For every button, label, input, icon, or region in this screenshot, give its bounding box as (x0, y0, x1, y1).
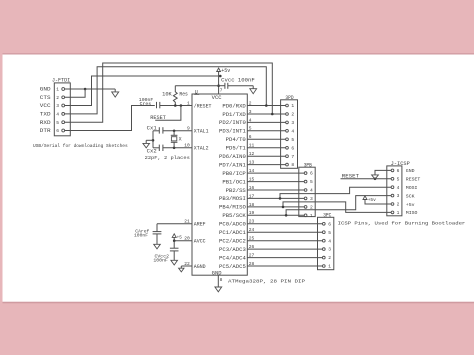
wire to crystal ground (146, 139, 153, 141)
wire PD3 to 3PD pin 4 (247, 130, 285, 132)
svg-text:3: 3 (328, 247, 331, 253)
wire PB2 to 3PB pin 4 (247, 189, 304, 191)
svg-text:5: 5 (328, 230, 331, 236)
connector 3PD box (281, 100, 298, 169)
svg-text:9: 9 (187, 126, 190, 132)
junction crystal ground tap (152, 139, 155, 142)
svg-text:SCK: SCK (406, 193, 415, 199)
+5v symbol (main) (217, 68, 221, 71)
svg-text:1: 1 (397, 210, 400, 216)
svg-text:PC5/ADC5: PC5/ADC5 (219, 264, 246, 270)
svg-text:PD6/AIN0: PD6/AIN0 (219, 154, 246, 160)
wire Cres to /RESET pin 1 (160, 105, 192, 107)
svg-text:6: 6 (310, 171, 313, 177)
capacitor CAref plates (153, 231, 162, 233)
3PB pin 6 circle (304, 172, 307, 175)
svg-text:100nF: 100nF (134, 233, 148, 239)
junction 10K on /RESET (174, 104, 177, 107)
svg-text:8: 8 (220, 277, 223, 283)
ground (CAref) (154, 244, 161, 249)
3PC pin 6 circle (322, 222, 325, 225)
capacitor Cx1 plates (158, 127, 160, 133)
svg-text:MOSI: MOSI (406, 185, 418, 191)
3PC pin 5 circle (322, 231, 325, 234)
svg-text:GND: GND (406, 168, 415, 174)
wire PC2 to 3PC pin 4 (247, 240, 322, 242)
wire AREF down to CAref (156, 224, 158, 232)
svg-text:XTAL2: XTAL2 (194, 146, 209, 152)
capacitor Cvcc plates (224, 83, 226, 89)
3PC pin 2 circle (322, 256, 325, 259)
3PD pin 1 circle (286, 104, 289, 107)
svg-text:1: 1 (310, 213, 313, 219)
wire PC0 to 3PC pin 6 (247, 223, 322, 225)
svg-text:2: 2 (291, 112, 294, 118)
svg-text:PC1/ADC1: PC1/ADC1 (219, 230, 246, 236)
junction VCC rail (219, 75, 222, 78)
svg-text:8: 8 (291, 162, 294, 168)
svg-text:TXD: TXD (40, 112, 51, 118)
wire Cx1-Cx2 link (152, 131, 154, 148)
wire Cx1 left (153, 130, 159, 132)
svg-text:1: 1 (328, 264, 331, 270)
svg-text:PB1/OC1: PB1/OC1 (222, 179, 245, 185)
3PB pin 2 circle (304, 206, 307, 209)
wire stem to ground (114, 89, 116, 92)
ground (crystal) (143, 143, 150, 148)
svg-text:3: 3 (397, 193, 400, 199)
wire AVCC (174, 240, 192, 242)
J-ICSP pin 6 circle (391, 169, 394, 172)
wire PB4 to 3PB pin 2 (247, 206, 304, 208)
svg-text:Cres: Cres (140, 101, 152, 107)
wire VCC rail to +5v (65, 76, 221, 106)
connector J-FTDI (54, 83, 70, 136)
wire PB0 to 3PB pin 6 (247, 172, 304, 174)
svg-text:CTS: CTS (40, 95, 51, 101)
wire Cvcc to ground (228, 85, 253, 87)
svg-text:10: 10 (184, 143, 190, 149)
+5v symbol (AVCC) (172, 234, 176, 238)
3PB pin 3 circle (304, 197, 307, 200)
svg-text:1: 1 (291, 103, 294, 109)
wire TXD to PD0/RXD (65, 67, 266, 114)
wire GND from J-FTDI pin1 (65, 88, 115, 90)
svg-text:3PD: 3PD (285, 95, 293, 101)
svg-text:1: 1 (187, 100, 190, 106)
svg-text:PD1/TXD: PD1/TXD (222, 112, 245, 118)
svg-text:4: 4 (397, 185, 400, 191)
wire +5v to ICSP pin 2 (365, 200, 391, 205)
wire PB3 to 3PB pin 3 (247, 197, 304, 199)
ground (AGND) (179, 268, 184, 272)
wire ICSP GND (375, 170, 391, 175)
svg-text:J-FTDI: J-FTDI (52, 78, 70, 84)
svg-text:6: 6 (328, 221, 331, 227)
wire PD1 to 3PD pin 2 (247, 113, 285, 115)
connector J-ICSP box (387, 166, 402, 216)
svg-text:USB/Serial for downloading Ske: USB/Serial for downloading Sketches (33, 143, 128, 149)
svg-text:+5v: +5v (221, 68, 230, 74)
svg-text:6: 6 (291, 145, 294, 151)
+5v symbol (ICSP) (363, 196, 367, 200)
connector 3PB box (299, 167, 315, 216)
wire PB5 to 3PB pin 1 (247, 214, 304, 216)
ground (ICSP) (372, 175, 379, 179)
svg-text:VCC: VCC (212, 95, 222, 101)
svg-text:J-ICSP: J-ICSP (391, 161, 410, 167)
svg-text:22pF, 2 places: 22pF, 2 places (145, 155, 190, 161)
svg-text:2: 2 (56, 95, 59, 101)
3PD pin 7 circle (286, 155, 289, 158)
wire PB1 to 3PB pin 5 (247, 181, 304, 183)
svg-text:ICSP Pins, Used for Burning Bo: ICSP Pins, Used for Burning Bootloader (338, 220, 466, 226)
svg-text:5: 5 (56, 120, 59, 126)
svg-text:Res: Res (179, 91, 188, 97)
wire +5v to AVCC (173, 237, 175, 240)
J-FTDI pin 1 circle (62, 88, 65, 91)
J-ICSP pin 4 circle (391, 186, 394, 189)
wire AREF (157, 223, 192, 225)
wire 10K top to +5v (175, 85, 218, 87)
svg-text:100nF: 100nF (153, 257, 168, 263)
wire PB3/MOSI to ICSP pin 4 (280, 187, 391, 198)
resistor Res 10K pull-up (173, 86, 177, 106)
svg-text:4: 4 (291, 128, 294, 134)
wire PB5/SCK to ICSP pin 3 (286, 196, 391, 216)
J-FTDI pin 3 circle (62, 104, 65, 107)
junction ground tip on RESET wire (374, 178, 377, 181)
3PD pin 3 circle (286, 121, 289, 124)
svg-text:GND: GND (212, 271, 222, 277)
3PD pin 2 circle (286, 113, 289, 116)
wire IC GND pin 8 (217, 275, 219, 287)
svg-text:GND: GND (40, 87, 51, 93)
J-ICSP pin 2 circle (391, 203, 394, 206)
svg-text:PB2/SS: PB2/SS (226, 188, 246, 194)
wire PD0 to 3PD pin 1 (247, 105, 285, 107)
svg-text:PB0/ICP: PB0/ICP (222, 171, 245, 177)
J-FTDI pin 6 circle (62, 129, 65, 132)
svg-text:MISO: MISO (406, 210, 418, 216)
svg-text:3PB: 3PB (304, 162, 312, 168)
3PC pin 4 circle (322, 239, 325, 242)
svg-text:PC0/ADC0: PC0/ADC0 (219, 222, 246, 228)
svg-text:/RESET: /RESET (194, 103, 212, 109)
svg-text:ATMega328P, 28 PIN DIP: ATMega328P, 28 PIN DIP (228, 279, 305, 285)
J-ICSP pin 1 circle (391, 211, 394, 214)
svg-text:3: 3 (56, 103, 59, 109)
wire Cx2 left (153, 147, 159, 149)
svg-text:+5v: +5v (406, 202, 415, 208)
J-FTDI pin 2 circle (62, 96, 65, 99)
svg-text:2: 2 (328, 255, 331, 261)
ground (Cvcc2) (171, 260, 178, 265)
junction SCK branch (285, 214, 288, 217)
svg-text:4: 4 (328, 238, 331, 244)
svg-text:RESET: RESET (150, 115, 166, 121)
junction XTAL1/crystal (173, 130, 176, 133)
capacitor Cres plates (156, 102, 158, 108)
underline U (194, 93, 199, 95)
wire PC5 to 3PC pin 1 (247, 265, 322, 267)
svg-text:PD4/T0: PD4/T0 (226, 137, 246, 143)
svg-text:6: 6 (56, 128, 59, 134)
svg-text:AGND: AGND (194, 264, 206, 270)
svg-text:PD5/T1: PD5/T1 (226, 146, 246, 152)
wire PD4 to 3PD pin 5 (247, 138, 285, 140)
J-FTDI pin 5 circle (62, 121, 65, 124)
svg-text:7: 7 (220, 88, 223, 93)
svg-text:AVCC: AVCC (194, 239, 206, 245)
svg-text:5: 5 (397, 176, 400, 182)
svg-text:4: 4 (56, 112, 59, 118)
junction GND/CTS (84, 88, 87, 91)
svg-text:XTAL1: XTAL1 (194, 129, 209, 135)
svg-text:PD7/AIN1: PD7/AIN1 (219, 162, 246, 168)
3PD pin 4 circle (286, 129, 289, 132)
wire PC3 to 3PC pin 3 (247, 248, 322, 250)
J-ICSP pin 3 circle (391, 194, 394, 197)
svg-text:PB3/MOSI: PB3/MOSI (219, 196, 246, 202)
svg-text:5: 5 (310, 179, 313, 185)
wire PC1 to 3PC pin 5 (247, 231, 322, 233)
svg-text:+5: +5 (177, 235, 183, 240)
junction AVCC/Cvcc2 (173, 239, 176, 242)
crystal X (173, 131, 175, 136)
3PC pin 3 circle (322, 248, 325, 251)
junction MISO branch (282, 206, 285, 209)
svg-text:PD0/RXD: PD0/RXD (222, 103, 245, 109)
wire RESET to ICSP pin 5 (341, 178, 392, 180)
svg-text:3PC: 3PC (323, 212, 331, 218)
3PB pin 4 circle (304, 189, 307, 192)
ground (Cvcc) (250, 89, 257, 94)
wire PD5 to 3PD pin 6 (247, 147, 285, 149)
capacitor Cx2 plates (158, 145, 160, 151)
svg-text:+5v: +5v (368, 197, 376, 203)
svg-text:X: X (179, 137, 182, 143)
junction PD0/TXD (265, 104, 268, 107)
wire +5v to IC VCC pin 7 (218, 72, 220, 95)
wire AGND (181, 265, 192, 267)
ground (IC GND) (215, 287, 222, 292)
svg-text:RESET: RESET (342, 173, 359, 179)
ground (FTDI GND) (112, 92, 119, 97)
wire down to Cvcc2 (173, 241, 175, 249)
wire PD2 to 3PD pin 3 (247, 121, 285, 123)
3PC pin 1 circle (322, 265, 325, 268)
svg-text:6: 6 (397, 168, 400, 174)
wire DTR to Cres (65, 106, 155, 131)
junction MOSI branch (279, 197, 282, 200)
svg-text:1: 1 (56, 87, 59, 93)
connector 3PC box (318, 217, 334, 269)
J-ICSP pin 5 circle (391, 177, 394, 180)
svg-text:DTR: DTR (40, 128, 51, 134)
svg-text:PD3/INT1: PD3/INT1 (219, 129, 246, 135)
svg-text:PC4/ADC4: PC4/ADC4 (219, 255, 246, 261)
svg-text:RXD: RXD (40, 120, 51, 126)
svg-text:PD2/INT0: PD2/INT0 (219, 120, 246, 126)
wire PD6 to 3PD pin 7 (247, 155, 285, 157)
junction RESET label tap (180, 104, 183, 107)
3PD pin 8 circle (286, 163, 289, 166)
svg-text:PC3/ADC3: PC3/ADC3 (219, 247, 246, 253)
junction PD1/RXD (271, 113, 274, 116)
junction Cvcc/10K (217, 84, 220, 87)
svg-text:10K: 10K (162, 91, 172, 97)
J-FTDI pin 4 circle (62, 113, 65, 116)
svg-text:3: 3 (310, 196, 313, 202)
svg-text:AREF: AREF (194, 222, 206, 228)
3PB pin 5 circle (304, 180, 307, 183)
wire RESET net label tap (155, 106, 181, 121)
svg-text:VCC: VCC (40, 103, 51, 109)
wire XTAL1 (163, 130, 192, 132)
3PD pin 5 circle (286, 138, 289, 141)
wire PD7 to 3PD pin 8 (247, 164, 285, 166)
capacitor Cvcc2 plates (170, 247, 179, 249)
wire PB4/MISO to ICSP pin 1 (283, 202, 391, 213)
svg-text:3: 3 (291, 120, 294, 126)
svg-text:5: 5 (291, 137, 294, 143)
svg-text:Cx2: Cx2 (147, 149, 157, 155)
op IC U ATmega328P box (192, 94, 247, 275)
wire to Cvcc (219, 85, 225, 87)
3PB pin 1 circle (304, 214, 307, 217)
svg-text:2: 2 (397, 202, 400, 208)
wire CTS to GND junction (65, 89, 85, 97)
3PD pin 6 circle (286, 146, 289, 149)
svg-text:PB4/MISO: PB4/MISO (219, 205, 246, 211)
wire PC4 to 3PC pin 2 (247, 257, 322, 259)
svg-text:4: 4 (310, 188, 313, 194)
wire RXD to PD1/TXD (65, 63, 272, 122)
svg-text:Cvcc 100nF: Cvcc 100nF (221, 78, 255, 84)
wire XTAL2 (163, 147, 192, 149)
svg-text:PB5/SCK: PB5/SCK (222, 213, 245, 219)
svg-text:RESET: RESET (406, 177, 421, 183)
svg-text:7: 7 (291, 154, 294, 160)
junction XTAL2/crystal (173, 147, 176, 150)
svg-text:PC2/ADC2: PC2/ADC2 (219, 239, 246, 245)
